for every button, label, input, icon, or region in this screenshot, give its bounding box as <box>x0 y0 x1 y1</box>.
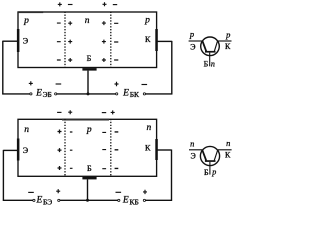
charge signs above box (pnp) <box>58 2 117 6</box>
bottom wire segment 2 <box>60 199 118 201</box>
U1 emitter lead <box>189 40 203 42</box>
svg-text:p: p <box>144 15 150 25</box>
battery EБЭ + terminal circle <box>58 199 60 201</box>
space-charge signs at EB junction (pnp) <box>57 21 72 62</box>
junction node (base to bottom wire) <box>87 92 90 95</box>
svg-text:p: p <box>86 125 92 135</box>
minus column left of EB junction <box>57 23 61 60</box>
U2 collector diagonal <box>214 150 218 161</box>
right riser wire <box>171 150 173 201</box>
plus above CB junction <box>111 110 115 114</box>
bottom wire segment 1 <box>3 199 33 201</box>
svg-text:Б: Б <box>87 54 92 63</box>
svg-text:Э: Э <box>191 151 196 160</box>
emitter electrode bar <box>17 139 20 161</box>
emitter-base junction (dotted) <box>64 119 66 176</box>
U1 emitter diagonal (thick) <box>203 41 207 51</box>
minus sign at EБЭ <box>28 191 34 193</box>
minus column right of CB junction <box>114 23 118 60</box>
U2 base lead <box>209 162 211 175</box>
U1 base lead <box>209 53 211 67</box>
svg-text:E: E <box>122 88 129 98</box>
battery EКБ + terminal circle <box>143 199 145 201</box>
svg-text:БЭ: БЭ <box>43 197 52 206</box>
bottom wire segment 2 <box>57 93 116 95</box>
minus column right of CB junction (short bold) <box>115 132 119 169</box>
emitter-base junction (dotted) <box>64 12 66 68</box>
U2 base bar <box>205 160 216 162</box>
emitter lead wire <box>3 40 18 42</box>
charge signs above box (npn) <box>57 110 115 114</box>
svg-text:p: p <box>225 29 230 39</box>
plus sign at EБЭ <box>56 189 60 193</box>
left drop wire <box>2 150 4 201</box>
svg-text:К: К <box>145 144 151 153</box>
space-charge signs at CB junction (npn) <box>102 132 118 169</box>
base wire <box>87 179 89 200</box>
svg-text:Б: Б <box>204 168 209 177</box>
U2 collector lead <box>218 149 232 151</box>
U2 emitter lead <box>189 149 202 151</box>
space-charge signs at CB junction (pnp) <box>102 21 118 62</box>
minus sign at EЭБ <box>56 83 62 85</box>
collector electrode bar <box>155 29 158 51</box>
battery EЭБ + terminal circle <box>30 93 32 95</box>
left drop wire <box>2 41 4 95</box>
U1 collector lead <box>218 40 232 42</box>
base-collector junction (dotted) <box>110 119 112 176</box>
svg-text:n: n <box>226 138 230 148</box>
svg-text:БК: БК <box>130 90 140 99</box>
emitter lead wire <box>3 149 18 151</box>
svg-text:Э: Э <box>23 37 29 46</box>
plus above EB junction <box>58 2 62 6</box>
plus sign at EБК <box>115 82 119 86</box>
minus above CB junction <box>113 4 117 6</box>
svg-text:Э: Э <box>190 42 195 51</box>
base wire <box>87 71 89 94</box>
svg-text:p: p <box>23 16 29 26</box>
svg-text:К: К <box>145 35 151 44</box>
space-charge signs at EB junction (npn) <box>58 130 73 171</box>
U2 emitter diagonal (thick) <box>202 150 206 161</box>
U1 body circle <box>201 37 220 56</box>
plus column left of EB junction <box>58 130 62 171</box>
plus sign at EЭБ <box>29 81 33 85</box>
svg-text:К: К <box>225 151 231 160</box>
svg-text:n: n <box>211 60 215 69</box>
emitter electrode bar <box>17 29 20 52</box>
plus above EB junction <box>68 110 72 114</box>
svg-text:К: К <box>225 42 231 51</box>
minus sign at EБК <box>142 84 148 86</box>
bottom wire segment 1 <box>2 93 30 95</box>
battery EБК - terminal circle <box>143 93 145 95</box>
svg-text:КБ: КБ <box>130 197 139 206</box>
svg-text:Б: Б <box>204 60 209 69</box>
svg-text:n: n <box>24 125 29 135</box>
svg-text:E: E <box>35 88 42 98</box>
junction node (base to bottom wire) <box>86 199 89 202</box>
plus sign at EКБ <box>143 190 147 194</box>
base electrode bar <box>82 177 96 180</box>
minus column left of CB junction <box>102 132 106 168</box>
svg-text:p: p <box>189 29 194 39</box>
minus above EB junction <box>68 4 73 6</box>
battery EБЭ - terminal circle <box>33 199 35 201</box>
U1 base bar <box>205 51 216 53</box>
collector lead wire <box>157 149 172 151</box>
battery EБК + terminal circle <box>116 93 118 95</box>
minus sign at EКБ <box>116 191 122 193</box>
minus above CB junction <box>102 112 106 114</box>
U1 collector diagonal <box>214 41 217 51</box>
semiconductor body box (npn) <box>18 119 157 176</box>
collector electrode bar <box>155 139 158 160</box>
collector lead wire <box>157 40 172 42</box>
battery EКБ - terminal circle <box>118 199 120 201</box>
plus column right of EB junction <box>68 21 72 62</box>
svg-text:ЭБ: ЭБ <box>43 90 52 99</box>
battery EЭБ - terminal circle <box>55 93 57 95</box>
semiconductor body box (pnp) <box>18 12 157 68</box>
svg-text:n: n <box>85 16 90 26</box>
svg-text:n: n <box>190 138 194 148</box>
minus above EB junction <box>57 111 61 113</box>
bottom wire segment 3 <box>146 199 173 201</box>
svg-text:n: n <box>147 123 152 133</box>
collector-base junction (dotted) <box>110 12 112 68</box>
svg-text:Э: Э <box>23 146 29 155</box>
minus column right of EB junction <box>70 132 73 168</box>
right riser wire <box>171 41 173 95</box>
svg-text:Б: Б <box>87 164 92 173</box>
plus column left of CB junction <box>102 21 106 62</box>
bottom wire segment 3 <box>146 93 173 95</box>
svg-text:E: E <box>122 196 129 206</box>
svg-text:p: p <box>211 167 216 176</box>
U2 body circle <box>200 146 219 165</box>
base electrode bar <box>82 68 96 71</box>
svg-text:E: E <box>36 196 43 206</box>
plus above CB junction <box>103 2 107 6</box>
